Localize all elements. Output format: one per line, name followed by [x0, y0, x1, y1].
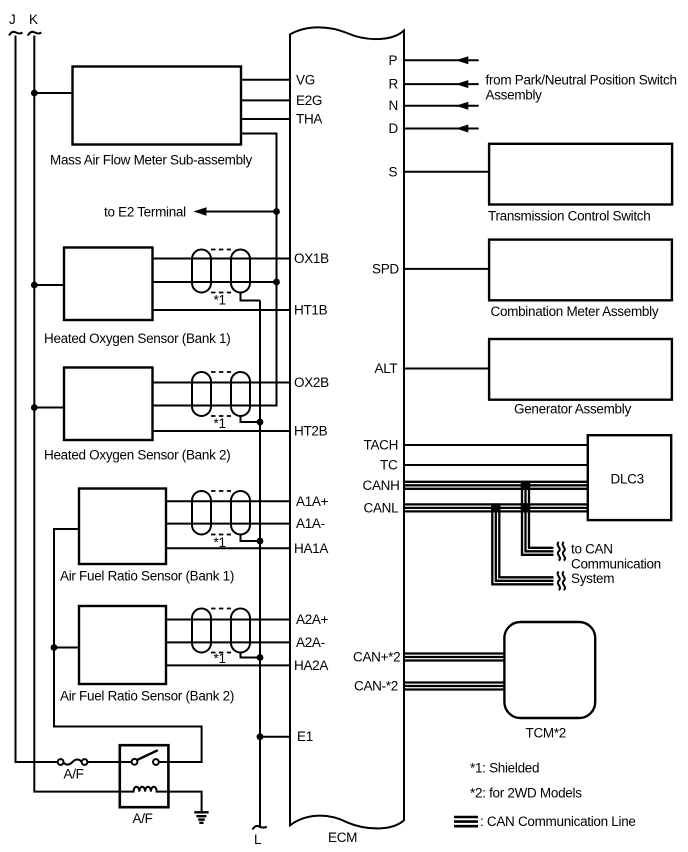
- shield S1 dashed bottom: [211, 292, 231, 294]
- generator assembly box: [489, 339, 672, 400]
- svg-text:System: System: [571, 571, 614, 586]
- svg-text:*1: *1: [214, 293, 226, 308]
- wire shield S1 drain: [241, 293, 261, 301]
- mass air flow meter box: [73, 67, 242, 145]
- junction dot S4 drain: [257, 654, 264, 661]
- svg-text:A2A-: A2A-: [296, 635, 325, 650]
- CAN wire CAN-*2 triple: [404, 683, 504, 690]
- svg-text:*1: *1: [214, 651, 226, 666]
- wire K to HOS2: [34, 407, 64, 409]
- junction dot K-HOS2: [31, 404, 38, 411]
- fuse AF circle right: [82, 759, 88, 765]
- arrowhead to E2 terminal: [194, 207, 207, 215]
- svg-text:CANH: CANH: [363, 478, 400, 493]
- CAN branch from CANH triple: [522, 486, 554, 555]
- wire R: [404, 83, 479, 85]
- junction dot K-MAF: [31, 90, 38, 97]
- svg-text:P: P: [389, 53, 398, 68]
- CAN branch from CANL triple: [492, 509, 553, 584]
- svg-text:DLC3: DLC3: [611, 472, 644, 487]
- wire shield S4 drain: [241, 653, 261, 658]
- svg-text:Combination Meter Assembly: Combination Meter Assembly: [491, 304, 659, 319]
- svg-text:R: R: [389, 77, 399, 92]
- relay switch wire right: [159, 761, 169, 763]
- combination meter assembly box: [489, 240, 672, 301]
- svg-text:CAN+*2: CAN+*2: [353, 650, 400, 665]
- shield S4 capsule left: [192, 609, 211, 653]
- wire OX2B: [153, 382, 291, 384]
- svg-text:Air Fuel Ratio Sensor (Bank 1): Air Fuel Ratio Sensor (Bank 1): [60, 569, 234, 584]
- CAN wire CANL triple: [404, 504, 588, 511]
- shield S1 dashed top: [211, 249, 231, 251]
- svg-text:to CAN: to CAN: [571, 542, 613, 557]
- svg-text:ECM: ECM: [328, 830, 357, 845]
- svg-text:HA1A: HA1A: [294, 541, 328, 556]
- svg-text:SPD: SPD: [372, 261, 399, 276]
- svg-text:K: K: [29, 12, 38, 27]
- arrowhead N: [456, 102, 469, 110]
- junction CANH branch: [521, 481, 530, 490]
- shield S3 dashed top: [211, 490, 231, 492]
- junction dot heater-AF2: [51, 644, 58, 651]
- wire SPD: [404, 268, 489, 270]
- wire HT1B: [153, 309, 291, 311]
- ground symbol: [194, 812, 208, 823]
- relay switch contact left: [132, 759, 138, 765]
- shield S4 dashed bottom: [211, 652, 231, 654]
- shield S4 dashed top: [211, 608, 231, 610]
- TCM box: [504, 622, 595, 718]
- wire to E2 terminal arrow line: [204, 211, 277, 213]
- wire K to HOS1: [34, 284, 64, 286]
- svg-text:Heated Oxygen Sensor (Bank 1): Heated Oxygen Sensor (Bank 1): [44, 331, 230, 346]
- svg-text:HA2A: HA2A: [294, 658, 328, 673]
- shield S2 dashed bottom: [211, 415, 231, 417]
- svg-text:*1: Shielded: *1: Shielded: [470, 761, 539, 776]
- svg-text:A2A+: A2A+: [296, 612, 329, 627]
- wire break symbol CAN stub lower: [558, 572, 565, 591]
- wire VG: [241, 79, 290, 81]
- svg-text:ALT: ALT: [375, 361, 398, 376]
- shield S2 capsule left: [192, 372, 211, 416]
- wire E2G: [241, 99, 290, 101]
- shield S3 capsule left: [192, 491, 211, 535]
- junction CANH branch crossing CANL: [521, 503, 530, 512]
- air fuel ratio sensor bank1 box: [79, 489, 166, 565]
- wire HT2B: [153, 430, 291, 432]
- svg-text:A1A-: A1A-: [296, 516, 325, 531]
- wire heater rail to AF boxes: [54, 529, 202, 762]
- wire TC: [404, 464, 588, 466]
- svg-text:TCM*2: TCM*2: [526, 726, 567, 741]
- svg-text:Communication: Communication: [571, 557, 661, 572]
- wire J rail to fuse: [16, 36, 58, 763]
- svg-text:J: J: [9, 12, 15, 27]
- svg-text:OX2B: OX2B: [294, 375, 329, 390]
- svg-text:A1A+: A1A+: [296, 494, 329, 509]
- svg-text:E2G: E2G: [296, 93, 322, 108]
- svg-text:Assembly: Assembly: [486, 88, 543, 103]
- wire K to MAF: [34, 92, 72, 94]
- wire THA: [241, 118, 290, 120]
- shield S1 capsule left: [192, 250, 211, 293]
- svg-text:A/F: A/F: [133, 811, 153, 826]
- junction dot S2 drain: [257, 419, 264, 426]
- svg-text:Generator Assembly: Generator Assembly: [514, 402, 631, 417]
- wire shield S2 drain: [241, 416, 261, 422]
- wire A2A-: [166, 641, 290, 643]
- junction dot E1: [257, 733, 264, 740]
- shield S3 dashed bottom: [211, 534, 231, 536]
- svg-text:E1: E1: [297, 729, 313, 744]
- wire MAF E2 rail: [153, 134, 277, 406]
- wire shield S3 drain: [241, 535, 261, 542]
- svg-text:TACH: TACH: [364, 438, 399, 453]
- wire break symbol L: [253, 826, 267, 830]
- svg-text:HT2B: HT2B: [294, 424, 328, 439]
- junction dot K-HOS1: [31, 282, 38, 289]
- wire HA2A: [166, 664, 290, 666]
- transmission control switch box: [489, 144, 672, 205]
- svg-text:N: N: [389, 98, 398, 113]
- junction dot S3 drain: [257, 538, 264, 545]
- wire P: [404, 59, 479, 61]
- junction dot E2 arrow: [273, 208, 280, 215]
- legend CAN communication line symbol: [454, 817, 478, 826]
- svg-text:Transmission Control Switch: Transmission Control Switch: [488, 209, 650, 224]
- relay switch blade: [137, 750, 158, 760]
- shield S2 capsule right: [231, 372, 250, 416]
- svg-text:: CAN Communication Line: : CAN Communication Line: [480, 814, 636, 829]
- svg-text:from Park/Neutral Position Swi: from Park/Neutral Position Switch: [486, 73, 677, 88]
- svg-text:A/F: A/F: [64, 767, 84, 782]
- air fuel ratio sensor bank2 box: [79, 606, 166, 684]
- wire break symbol CAN stub upper: [558, 542, 565, 561]
- svg-text:THA: THA: [296, 112, 322, 127]
- DLC3 box: [588, 435, 671, 520]
- fuse AF wavy element: [64, 760, 82, 765]
- svg-text:CAN-*2: CAN-*2: [354, 679, 398, 694]
- svg-text:TC: TC: [380, 458, 398, 473]
- wire HA1A: [166, 547, 290, 549]
- wire heater to AF2: [54, 647, 79, 649]
- heated oxygen sensor bank2 box: [64, 368, 153, 441]
- svg-text:OX1B: OX1B: [294, 251, 329, 266]
- wire S: [404, 171, 489, 173]
- svg-text:*1: *1: [214, 416, 226, 431]
- svg-text:CANL: CANL: [364, 500, 400, 515]
- svg-text:*2: for 2WD Models: *2: for 2WD Models: [470, 786, 582, 801]
- wire A1A-: [166, 523, 290, 525]
- arrowhead R: [456, 80, 469, 88]
- wire TACH: [404, 444, 588, 446]
- relay AF box: [120, 745, 169, 807]
- arrowhead P: [456, 56, 469, 64]
- svg-text:Mass Air Flow Meter Sub-assemb: Mass Air Flow Meter Sub-assembly: [50, 153, 253, 168]
- ECM body: [290, 27, 404, 828]
- wire fuse to relay: [87, 761, 119, 763]
- svg-text:VG: VG: [296, 72, 315, 87]
- svg-text:Heated Oxygen Sensor (Bank 2): Heated Oxygen Sensor (Bank 2): [44, 448, 230, 463]
- wire OX1B: [153, 258, 291, 260]
- wire D: [404, 128, 479, 130]
- shield S3 capsule right: [231, 491, 250, 535]
- relay switch contact right: [153, 759, 159, 765]
- wire shield drain rail to L: [259, 301, 261, 829]
- shield S4 capsule right: [231, 609, 250, 653]
- wire K rail to relay coil: [34, 36, 120, 792]
- arrowhead D: [456, 125, 469, 133]
- wire A2A+: [166, 619, 290, 621]
- svg-text:L: L: [254, 832, 262, 847]
- junction dot HOS1-E2: [273, 279, 280, 286]
- wire HOS1 E2: [153, 281, 277, 283]
- shield S1 capsule right: [231, 250, 250, 293]
- svg-text:to E2 Terminal: to E2 Terminal: [104, 205, 186, 220]
- wire A1A+: [166, 500, 290, 502]
- wire break symbol J: [9, 32, 23, 36]
- fuse AF circle left: [58, 759, 64, 765]
- wire E1: [260, 736, 290, 738]
- svg-text:S: S: [389, 164, 398, 179]
- CAN wire CANH triple: [404, 482, 588, 489]
- shield S2 dashed top: [211, 371, 231, 373]
- relay switch wire left: [120, 761, 132, 763]
- wire ALT: [404, 368, 489, 370]
- svg-text:D: D: [389, 121, 399, 136]
- heated oxygen sensor bank1 box: [64, 248, 153, 321]
- CAN wire CAN+*2 triple: [404, 654, 504, 661]
- svg-text:*1: *1: [214, 535, 226, 550]
- svg-text:Air Fuel Ratio Sensor (Bank 2): Air Fuel Ratio Sensor (Bank 2): [60, 689, 234, 704]
- wire break symbol K: [28, 32, 42, 36]
- wire coil to ground: [168, 792, 201, 812]
- wire N: [404, 105, 479, 107]
- junction CANL branch: [491, 503, 500, 512]
- relay coil: [120, 787, 169, 792]
- svg-text:HT1B: HT1B: [294, 303, 328, 318]
